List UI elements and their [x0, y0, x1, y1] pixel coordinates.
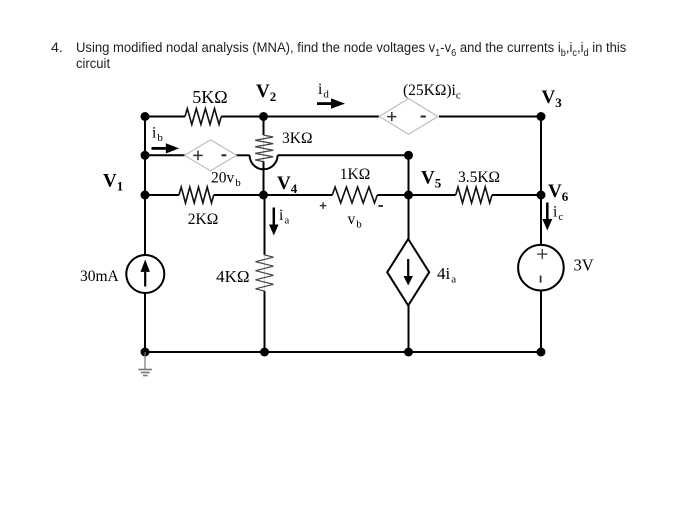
wire 20vb to hop [236, 154, 250, 156]
label node V1 [103, 171, 123, 194]
label node V5 [421, 168, 442, 191]
label 25K plus [387, 112, 396, 121]
svg-text:3.5KΩ: 3.5KΩ [458, 169, 500, 186]
svg-text:ia: ia [279, 207, 289, 227]
label node V2 [256, 81, 276, 104]
svg-text:3KΩ: 3KΩ [282, 130, 312, 147]
svg-text:id: id [318, 81, 329, 101]
wire third row V1 to 2K [145, 194, 179, 196]
dependent source 20vb diamond [185, 140, 237, 171]
wire second row left [145, 154, 185, 156]
node V4 [259, 191, 268, 200]
wire V6 down to 3V source [540, 195, 542, 245]
current arrow ib [152, 143, 180, 153]
label 2K [188, 211, 218, 228]
svg-text:V5: V5 [421, 168, 442, 191]
junction left-top [141, 112, 150, 121]
svg-text:2KΩ: 2KΩ [188, 211, 218, 228]
junction bottom-left [141, 348, 150, 357]
wire V5 to 3.5K [409, 194, 456, 196]
label 3V [574, 256, 594, 275]
label 3.5K [458, 169, 500, 186]
wire bottom rail [145, 351, 541, 353]
label vb minus [379, 205, 384, 207]
svg-text:V3: V3 [542, 87, 563, 110]
wire right rail V3 to V6 [540, 117, 542, 196]
svg-text:ic: ic [553, 204, 563, 224]
wire 4ia source to bottom [408, 305, 410, 352]
resistor R 2K zigzag [179, 187, 214, 203]
label node V6 [548, 181, 569, 204]
label 4ia [437, 264, 456, 286]
label 4K [216, 267, 249, 286]
label 20vb [211, 170, 241, 190]
current arrow ic [542, 203, 552, 231]
dependent current source 4ia diamond [387, 239, 429, 306]
resistor R 3K zigzag vertical [255, 135, 273, 161]
label 1K [340, 166, 370, 183]
svg-text:20vb: 20vb [211, 170, 241, 190]
wire V4 down to 4K [264, 195, 266, 255]
svg-text:V4: V4 [277, 173, 298, 196]
wire V2 to 25K source [264, 116, 380, 118]
wire hop to node above V5 [278, 154, 409, 156]
svg-text:30mA: 30mA [80, 268, 120, 285]
node V6 [537, 191, 546, 200]
junction left-mid [141, 151, 150, 160]
junction bottom-5 [404, 348, 413, 357]
label 3K [282, 130, 312, 147]
svg-text:5KΩ: 5KΩ [192, 87, 227, 107]
svg-text:(25KΩ)ic: (25KΩ)ic [403, 82, 461, 102]
current arrow id [317, 98, 345, 108]
node V2 [259, 112, 268, 121]
dependent source 25K ic diamond [379, 99, 438, 135]
current source I1 30mA circle [126, 255, 164, 293]
svg-text:4KΩ: 4KΩ [216, 267, 249, 286]
voltage source 3V circle [518, 245, 564, 291]
wire V5 down to 4ia source [408, 195, 410, 241]
label 5K [192, 87, 227, 107]
wire 3V source to bottom [540, 291, 542, 353]
wire V2 down to 3K [263, 117, 265, 136]
wire 3.5K to V6 [492, 194, 541, 196]
svg-text:vb: vb [348, 211, 363, 231]
junction above V5 [404, 151, 413, 160]
resistor R 4K zigzag vertical [256, 255, 274, 291]
wire left rail top [144, 117, 146, 256]
ground symbol [139, 352, 153, 376]
label node V3 [542, 87, 563, 110]
label ic [553, 204, 563, 224]
junction bottom-2 [260, 348, 269, 357]
label 25K minus [421, 116, 426, 118]
junction bottom-right [537, 348, 546, 357]
current arrow ia [269, 208, 279, 236]
svg-text:4ia: 4ia [437, 264, 456, 286]
label 3V plus [537, 249, 547, 259]
svg-text:3V: 3V [574, 256, 594, 275]
node V5 [404, 191, 413, 200]
label 30mA [80, 268, 120, 285]
wire 2K to V4 [214, 194, 264, 196]
label id [318, 81, 329, 101]
svg-text:1KΩ: 1KΩ [340, 166, 370, 183]
wire 1K to V5 [377, 194, 408, 196]
node V3 [537, 112, 546, 121]
label vb [348, 211, 363, 231]
resistor R 5K zigzag [185, 109, 221, 125]
wire 3K to V4 [263, 162, 265, 195]
wire top-left rail to 5K [145, 116, 185, 118]
wire 4K to bottom [264, 291, 266, 352]
wire 5K to node V2 [221, 116, 263, 118]
label 25K ic [403, 82, 461, 102]
label ib [152, 125, 163, 145]
label ia [279, 207, 289, 227]
label node V4 [277, 173, 298, 196]
wire hop arc over 3K [250, 155, 278, 169]
svg-text:V2: V2 [256, 81, 276, 104]
label vb plus [320, 202, 327, 209]
node V1 [141, 191, 150, 200]
svg-text:ib: ib [152, 125, 163, 145]
svg-text:V1: V1 [103, 171, 123, 194]
wire node down to V5 [408, 155, 410, 195]
svg-text:V6: V6 [548, 181, 569, 204]
resistor R 1K zigzag [332, 187, 377, 203]
wire 25K source to V3 [439, 116, 541, 118]
label 20vb plus [193, 151, 203, 161]
wire left rail bottom [144, 292, 146, 352]
label 3V minus [540, 276, 542, 283]
wire V4 to 1K [264, 194, 333, 196]
resistor R 3.5K zigzag [456, 187, 492, 203]
label 20vb minus [222, 154, 227, 156]
